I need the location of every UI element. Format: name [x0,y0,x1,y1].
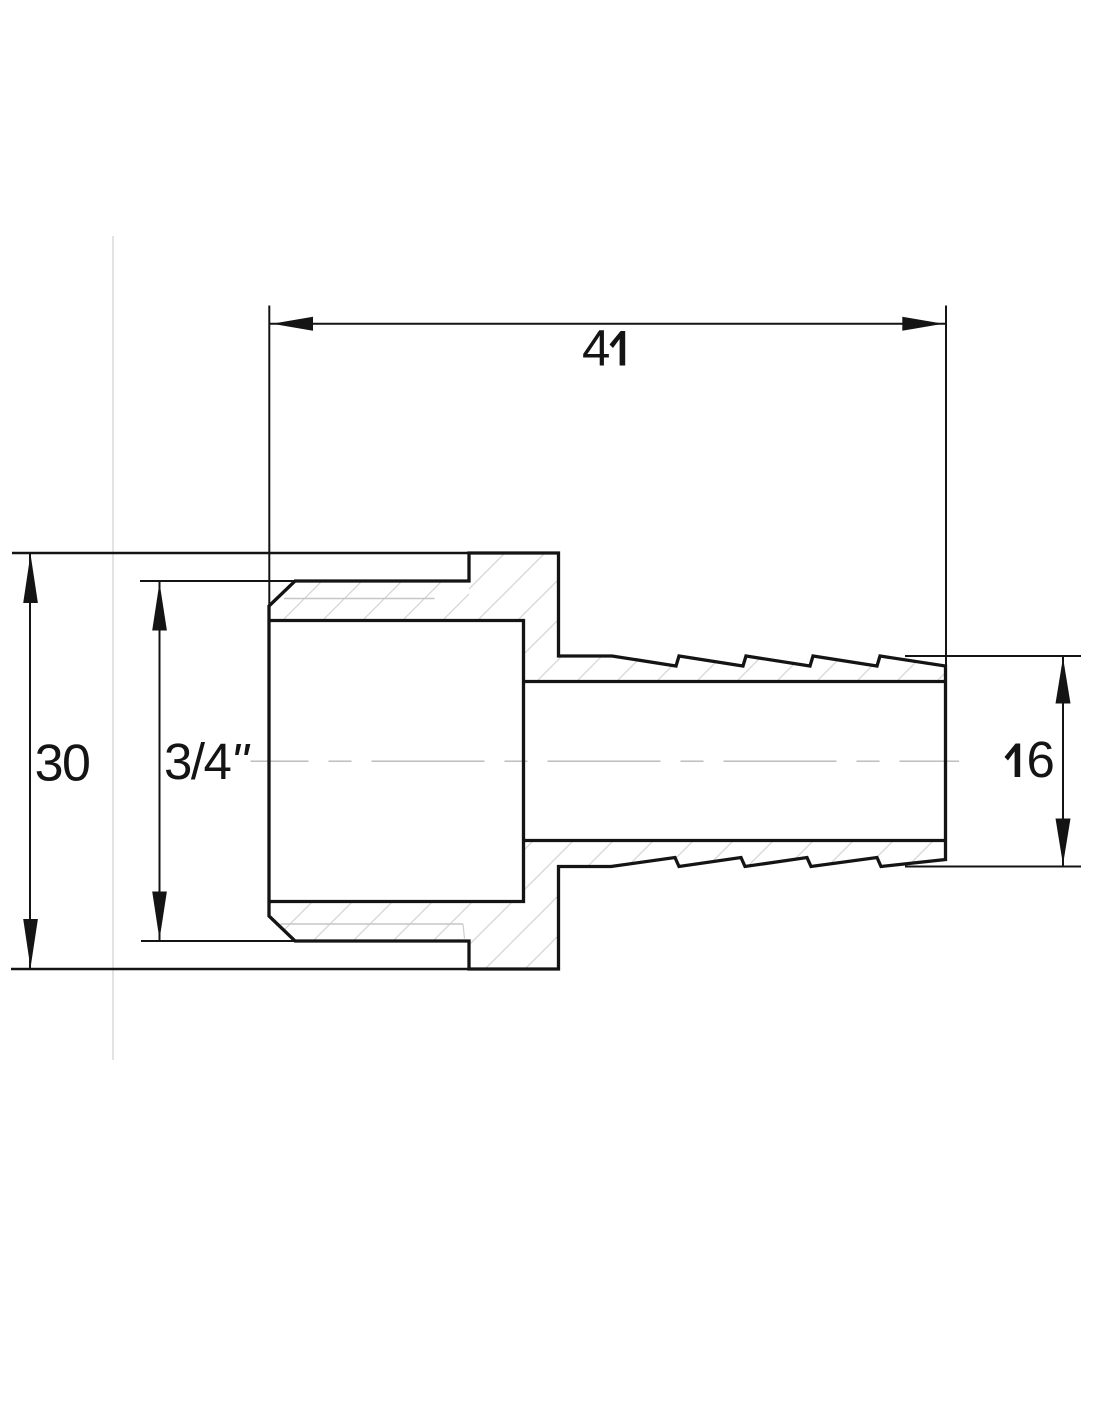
dim 41 line [269,323,946,325]
dim 30 line [29,553,31,969]
svg-text:30: 30 [35,735,90,793]
dim 30 extension line top [12,552,469,555]
dim 16 extension line bottom [905,866,1081,868]
hatching bottom section band [250,830,960,985]
thread runout tick bottom [463,924,465,939]
hatching top collar and barb wall [460,540,960,695]
barb bore bottom line [524,839,946,842]
part outline [269,553,946,969]
dim 16 text [1005,744,1021,778]
dim 41 extension line right [945,306,947,667]
dim 41 extension line left [268,306,270,607]
dim 3/4 arrow top [152,583,167,631]
dim 3/4 extension line bottom [141,940,295,942]
dim 16 line [1062,656,1064,867]
hatching top thread band [250,570,480,630]
dim 3/4 arrow bottom [152,892,167,940]
svg-text:6: 6 [1027,731,1055,788]
dim 30 extension line bottom [11,968,469,971]
thread major diameter line top [284,598,435,600]
centerline [251,760,960,762]
thread major diameter line bottom [281,923,464,925]
dim 16 extension line top [905,655,1081,657]
dim 16 arrow bottom [1056,819,1071,865]
dim 30 arrow bottom [23,919,38,968]
dim 41 arrow left [272,317,313,331]
light page guide line [112,236,114,1060]
barb bore top line [524,680,946,683]
svg-text:3/4": 3/4" [164,733,250,790]
dim 41 arrow right [902,317,943,331]
dim 3/4 line [159,581,161,941]
dim 16 arrow top [1056,658,1071,704]
svg-text:4: 4 [582,320,610,377]
dim 30 arrow top [23,554,38,603]
dim 3/4 extension line top [140,580,295,582]
thread bore rectangle [269,621,524,902]
